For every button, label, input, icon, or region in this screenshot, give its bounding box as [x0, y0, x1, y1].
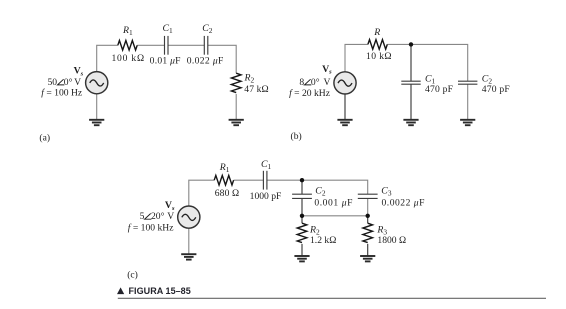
svg-text:V: V — [74, 77, 81, 88]
wire: C1 right to C2 left (a) — [168, 44, 204, 46]
ground below source (b) — [337, 120, 352, 125]
source Vs (c) — [178, 206, 200, 228]
svg-text:V: V — [324, 77, 331, 88]
capacitor C1 (c) — [263, 171, 267, 190]
svg-text:8: 8 — [299, 77, 304, 88]
wire: source top to R left (b) — [345, 44, 368, 71]
wire: node down to C2 top (c) — [301, 180, 303, 194]
svg-text:0.022 μF: 0.022 μF — [187, 55, 224, 66]
wire: C1 right through node to C3 branch (c) — [267, 180, 368, 194]
ground below source (a) — [89, 120, 104, 125]
wire: C2 bottom to ground (b) — [467, 84, 469, 119]
svg-text:0°: 0° — [64, 77, 73, 88]
svg-text:0°: 0° — [311, 77, 320, 88]
resistor R (b) — [368, 40, 387, 50]
svg-text:Vs: Vs — [165, 200, 175, 212]
capacitor C2 (a) — [204, 36, 208, 55]
svg-text:R: R — [373, 27, 380, 38]
svg-text:Vs: Vs — [322, 64, 332, 76]
svg-text:f = 100 Hz: f = 100 Hz — [41, 88, 82, 99]
svg-text:C3: C3 — [381, 185, 392, 197]
svg-text:C2: C2 — [202, 23, 213, 35]
svg-text:20°: 20° — [151, 211, 165, 222]
wire: R1 right to C1 left (c) — [234, 179, 264, 181]
wire: C2 right to top of R2 (a) — [208, 45, 236, 73]
source Vs (a) — [86, 72, 108, 94]
ground below R2 (c) — [294, 256, 309, 261]
svg-text:50: 50 — [48, 77, 58, 88]
svg-text:(c): (c) — [127, 269, 138, 280]
resistor R3 (c) — [363, 223, 373, 242]
capacitor C2 (c) — [292, 194, 312, 198]
wire: source top to R1 left (a) — [97, 45, 118, 71]
capacitor C1 (a) — [165, 36, 169, 55]
capacitor C2 (b) — [458, 81, 477, 84]
figure rule — [118, 297, 546, 299]
svg-text:C1: C1 — [163, 23, 174, 35]
source Vs (b) — [334, 72, 356, 94]
svg-text:(a): (a) — [39, 133, 50, 144]
node junction C3 bottom (c) — [366, 214, 370, 218]
wire: source bottom to ground (b) — [344, 94, 346, 119]
svg-text:FIGURA 15–85: FIGURA 15–85 — [129, 286, 191, 296]
ground below R2 (a) — [229, 120, 244, 125]
wire: R2 bottom to ground (a) — [235, 94, 237, 119]
angle symbol (b) — [305, 79, 312, 85]
svg-text:Vs: Vs — [74, 66, 84, 78]
node junction after R (b) — [409, 42, 413, 46]
svg-text:R2: R2 — [244, 72, 255, 84]
node junction C2 bottom (c) — [300, 214, 304, 218]
svg-text:0.0022 μF: 0.0022 μF — [382, 197, 425, 208]
wire: node down to C1 top (b) — [410, 44, 412, 81]
resistor R2 (c) — [297, 223, 307, 242]
svg-text:f = 100 kHz: f = 100 kHz — [128, 223, 174, 234]
svg-text:47 kΩ: 47 kΩ — [244, 84, 268, 95]
svg-text:1000 pF: 1000 pF — [250, 191, 282, 202]
node junction C2 top (c) — [300, 178, 304, 182]
wire: node to R3 top (c) — [367, 216, 369, 223]
svg-text:470 pF: 470 pF — [482, 84, 510, 95]
svg-text:R1: R1 — [219, 162, 230, 174]
svg-text:(b): (b) — [291, 131, 302, 142]
svg-text:10 kΩ: 10 kΩ — [366, 51, 392, 62]
wire: C1 bottom to ground (b) — [410, 84, 412, 119]
svg-text:f = 20 kHz: f = 20 kHz — [289, 88, 330, 99]
wire: C2 bottom to node (c) — [301, 198, 303, 215]
svg-text:5: 5 — [140, 211, 145, 222]
wire: source bottom to ground (a) — [96, 94, 98, 120]
angle symbol (c) — [145, 214, 152, 220]
capacitor C1 (b) — [401, 81, 420, 84]
svg-text:100 kΩ: 100 kΩ — [111, 53, 145, 64]
ground below source (c) — [181, 254, 196, 259]
angle symbol (a) — [58, 79, 65, 85]
capacitor C3 (c) — [358, 194, 378, 198]
svg-text:C2: C2 — [315, 185, 326, 197]
resistor R1 (c) — [214, 175, 233, 185]
wire: node to R2 top (c) — [301, 216, 303, 223]
svg-text:470 pF: 470 pF — [425, 84, 453, 95]
wire: R3 bottom to ground (c) — [367, 244, 369, 256]
svg-text:1800 Ω: 1800 Ω — [377, 235, 406, 246]
svg-text:680 Ω: 680 Ω — [215, 188, 239, 199]
svg-text:0.001 μF: 0.001 μF — [314, 197, 353, 208]
wire: R1 right to C1 left (a) — [137, 44, 164, 46]
resistor R2 (a) — [231, 73, 241, 92]
svg-text:V: V — [167, 211, 174, 222]
wire: source top to R1 left (c) — [189, 180, 214, 206]
ground below C1 (b) — [403, 120, 418, 125]
wire: R right through node to C2 branch (b) — [387, 44, 467, 81]
wire: node to node middle link (c) — [302, 215, 368, 217]
wire: C3 bottom to node (c) — [367, 198, 369, 215]
resistor R1 (a) — [118, 41, 137, 51]
svg-text:1.2 kΩ: 1.2 kΩ — [310, 235, 336, 246]
svg-text:C1: C1 — [261, 159, 272, 171]
svg-text:0.01 μF: 0.01 μF — [150, 55, 181, 66]
ground below R3 (c) — [360, 256, 375, 261]
wire: source bottom to ground (c) — [188, 228, 190, 254]
figure caption triangle — [117, 287, 124, 294]
wire: R2 bottom to ground (c) — [301, 244, 303, 256]
ground below C2 (b) — [460, 120, 475, 125]
svg-text:R1: R1 — [122, 25, 133, 37]
